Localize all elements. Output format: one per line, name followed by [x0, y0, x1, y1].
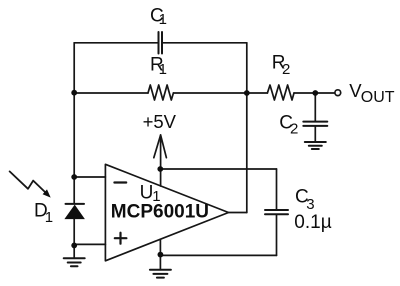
svg-text:2: 2	[290, 120, 298, 137]
svg-text:2: 2	[282, 61, 290, 78]
svg-text:OUT: OUT	[361, 89, 395, 106]
svg-text:3: 3	[306, 196, 314, 213]
svg-text:1: 1	[45, 209, 53, 226]
svg-text:+5V: +5V	[143, 111, 177, 132]
svg-text:1: 1	[159, 61, 167, 78]
svg-text:MCP6001U: MCP6001U	[111, 202, 209, 223]
svg-text:0.1µ: 0.1µ	[294, 212, 331, 233]
svg-text:1: 1	[159, 11, 167, 28]
